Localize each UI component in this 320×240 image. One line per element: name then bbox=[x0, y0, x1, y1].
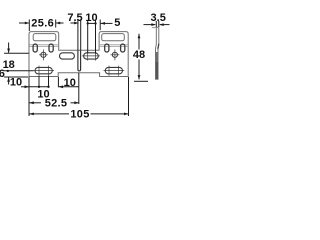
arrowhead 105 left pointing left bbox=[29, 113, 34, 116]
side view top lip bbox=[152, 27, 157, 29]
side view profile left edge bbox=[155, 27, 158, 79]
side view top tick bbox=[156, 26, 159, 28]
center narrow slot bbox=[78, 51, 81, 71]
dim 3.5 left arrow line bbox=[144, 24, 156, 26]
arrowhead 18 pointing down bbox=[7, 49, 10, 54]
dim 25.6 left arrow line bbox=[19, 22, 29, 24]
arrowhead 3.5 right pointing left bbox=[159, 23, 164, 26]
dim 25.6 right arrow line bbox=[56, 22, 63, 24]
arrowhead 25.6 right pointing left bbox=[56, 22, 61, 25]
crosshair middle right oval bbox=[82, 55, 100, 57]
centerline ext slot left side up bbox=[77, 20, 79, 51]
dim 10 bottom-left dim line bbox=[29, 86, 49, 88]
svg-text:10: 10 bbox=[64, 77, 76, 89]
dim 25.6 right ext tick bbox=[55, 20, 57, 28]
svg-text:10: 10 bbox=[85, 12, 97, 24]
small slot 2 left tab bbox=[49, 44, 53, 52]
arrowhead 3.5 left pointing right bbox=[151, 23, 156, 26]
small slot 1 left tab bbox=[33, 44, 37, 52]
dim 10 top ext right bbox=[95, 20, 97, 54]
right edge ext down bbox=[128, 77, 130, 116]
crosshair bottom right oval bbox=[104, 70, 125, 72]
dot arrowhead 6 bbox=[7, 70, 9, 72]
svg-text:52.5: 52.5 bbox=[45, 98, 68, 110]
dim 5 ext line bbox=[99, 20, 101, 31]
screw hole left with cross bbox=[41, 52, 46, 57]
dim 48 line lower bbox=[138, 60, 140, 80]
ext oval cross left down bbox=[38, 76, 40, 88]
centerline ext below plate bbox=[78, 73, 80, 104]
svg-text:10: 10 bbox=[10, 77, 22, 89]
arrowhead 5 pointing left bbox=[101, 22, 106, 25]
right tab window bbox=[102, 34, 125, 41]
dim 18 down arrow line bbox=[8, 43, 10, 53]
left ref line middle bbox=[4, 70, 34, 72]
dim 10 bottom-left arrow line bbox=[21, 86, 29, 88]
dot arrowhead 10 bl left bbox=[38, 86, 40, 88]
arrowhead 48 pointing down bbox=[138, 75, 141, 80]
dot arrowhead 10 top left bbox=[87, 22, 89, 24]
svg-text:48: 48 bbox=[133, 49, 145, 61]
left ref line 18 top bbox=[4, 52, 29, 54]
svg-text:6: 6 bbox=[0, 68, 5, 80]
small slot 2 right tab bbox=[121, 44, 125, 52]
bend line right tab upper bbox=[99, 44, 128, 46]
svg-text:5: 5 bbox=[114, 17, 120, 29]
screw hole right with cross bbox=[112, 52, 117, 57]
dim 105 line left part bbox=[29, 113, 69, 115]
arrowhead 10 bl pointing right bbox=[25, 85, 30, 88]
side strip ext up right bbox=[158, 21, 160, 27]
bottom oval slot left bbox=[35, 67, 52, 73]
dim 6 up arrow line bbox=[8, 77, 10, 84]
svg-text:7.5: 7.5 bbox=[67, 12, 82, 24]
dim 48 line upper bbox=[138, 34, 140, 50]
arrowhead 48 pointing up bbox=[138, 34, 141, 39]
ext step down bbox=[57, 77, 59, 87]
side bottom ref line bbox=[134, 80, 148, 82]
middle oval slot right bbox=[84, 53, 99, 59]
arrowhead 25.6 left pointing right bbox=[25, 22, 30, 25]
dot arrowhead 10 top right bbox=[94, 22, 96, 24]
side view profile right edge bbox=[157, 27, 160, 79]
small slot 1 right tab bbox=[105, 44, 109, 52]
bend line right tab lower bbox=[99, 46, 128, 48]
side view dark lower bar bbox=[156, 52, 158, 62]
arrowhead 52.5 right pointing right bbox=[74, 101, 79, 104]
dim 10 top line bbox=[88, 22, 96, 24]
left tab window bbox=[33, 34, 56, 41]
arrowhead 10 step pointing left bbox=[59, 85, 64, 88]
left ref line bottom bbox=[4, 76, 28, 78]
bottom oval slot right bbox=[105, 67, 122, 73]
dim 52.5 line right part bbox=[71, 102, 79, 104]
arrowhead 105 right pointing right bbox=[124, 113, 129, 116]
centerline ext slot right side up bbox=[80, 20, 82, 51]
bend line left tab lower bbox=[29, 46, 58, 48]
bend line left tab upper bbox=[29, 44, 58, 46]
arrowhead 52.5 left pointing left bbox=[29, 101, 34, 104]
dim 10 step line bbox=[59, 86, 79, 88]
dim 105 line right part bbox=[91, 113, 129, 115]
dim 25.6 left ext line bbox=[28, 20, 30, 32]
svg-text:105: 105 bbox=[70, 109, 89, 121]
dim 5 arrow line bbox=[101, 22, 113, 24]
left edge ext down bbox=[28, 77, 30, 117]
crosshair bottom left oval bbox=[33, 70, 54, 72]
dim 7.5 left arrow line bbox=[71, 22, 79, 24]
arrowhead 6 pointing up bbox=[7, 77, 10, 82]
dim 3.5 right arrow line bbox=[160, 24, 170, 26]
dim 10 top ext left bbox=[87, 20, 89, 54]
ext oval cross right down bbox=[48, 76, 50, 88]
svg-text:3.5: 3.5 bbox=[151, 12, 166, 24]
side strip ext up left bbox=[155, 21, 157, 27]
middle oval slot left bbox=[60, 53, 75, 59]
arrowhead 7.5 pointing right bbox=[74, 22, 79, 25]
dim 52.5 line left part bbox=[29, 102, 41, 104]
svg-text:25.6: 25.6 bbox=[31, 18, 54, 30]
side view knee dark bbox=[157, 44, 160, 49]
dot arrowhead 10 bl right bbox=[47, 86, 49, 88]
front view plate outline bbox=[29, 32, 128, 77]
